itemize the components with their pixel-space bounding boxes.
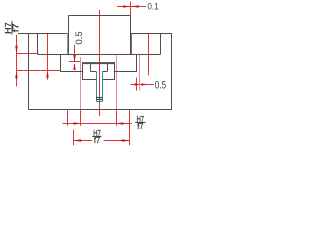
svg-text:f7: f7 — [94, 136, 100, 145]
svg-text:0.5: 0.5 — [74, 31, 85, 44]
svg-text:f7: f7 — [137, 122, 143, 131]
svg-text:0.5: 0.5 — [155, 79, 166, 91]
svg-text:0.1: 0.1 — [147, 1, 158, 11]
svg-text:f7: f7 — [10, 23, 20, 32]
